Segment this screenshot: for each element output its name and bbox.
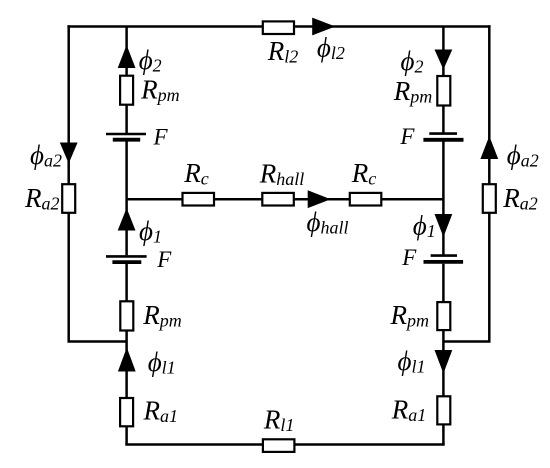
svg-text:ϕa2: ϕa2 [30, 140, 62, 171]
svg-text:Ra1: Ra1 [391, 394, 427, 425]
svg-text:F: F [156, 247, 172, 272]
svg-text:Rhall: Rhall [259, 159, 305, 190]
svg-text:Rc: Rc [351, 158, 377, 189]
svg-text:ϕl1: ϕl1 [398, 346, 426, 377]
svg-text:Ra1: Ra1 [143, 395, 179, 426]
svg-text:ϕ1: ϕ1 [413, 211, 436, 242]
svg-text:Rpm: Rpm [393, 76, 433, 107]
svg-text:ϕ2: ϕ2 [401, 46, 424, 77]
svg-text:Rpm: Rpm [142, 300, 182, 331]
svg-text:ϕl1: ϕl1 [148, 347, 176, 378]
svg-text:Rpm: Rpm [140, 74, 180, 105]
svg-text:ϕ1: ϕ1 [139, 216, 162, 247]
svg-text:ϕa2: ϕa2 [507, 140, 539, 171]
svg-text:F: F [153, 125, 169, 150]
svg-text:ϕl2: ϕl2 [317, 33, 345, 64]
svg-text:Rl2: Rl2 [267, 36, 299, 66]
svg-text:Rl1: Rl1 [263, 404, 295, 435]
svg-text:F: F [399, 124, 415, 149]
svg-text:ϕ2: ϕ2 [139, 45, 162, 76]
svg-text:Rc: Rc [183, 158, 209, 189]
svg-text:F: F [401, 245, 417, 270]
svg-text:Rpm: Rpm [390, 300, 430, 331]
svg-text:Ra2: Ra2 [24, 183, 60, 214]
svg-text:ϕhall: ϕhall [307, 207, 349, 238]
svg-text:Ra2: Ra2 [502, 183, 538, 214]
